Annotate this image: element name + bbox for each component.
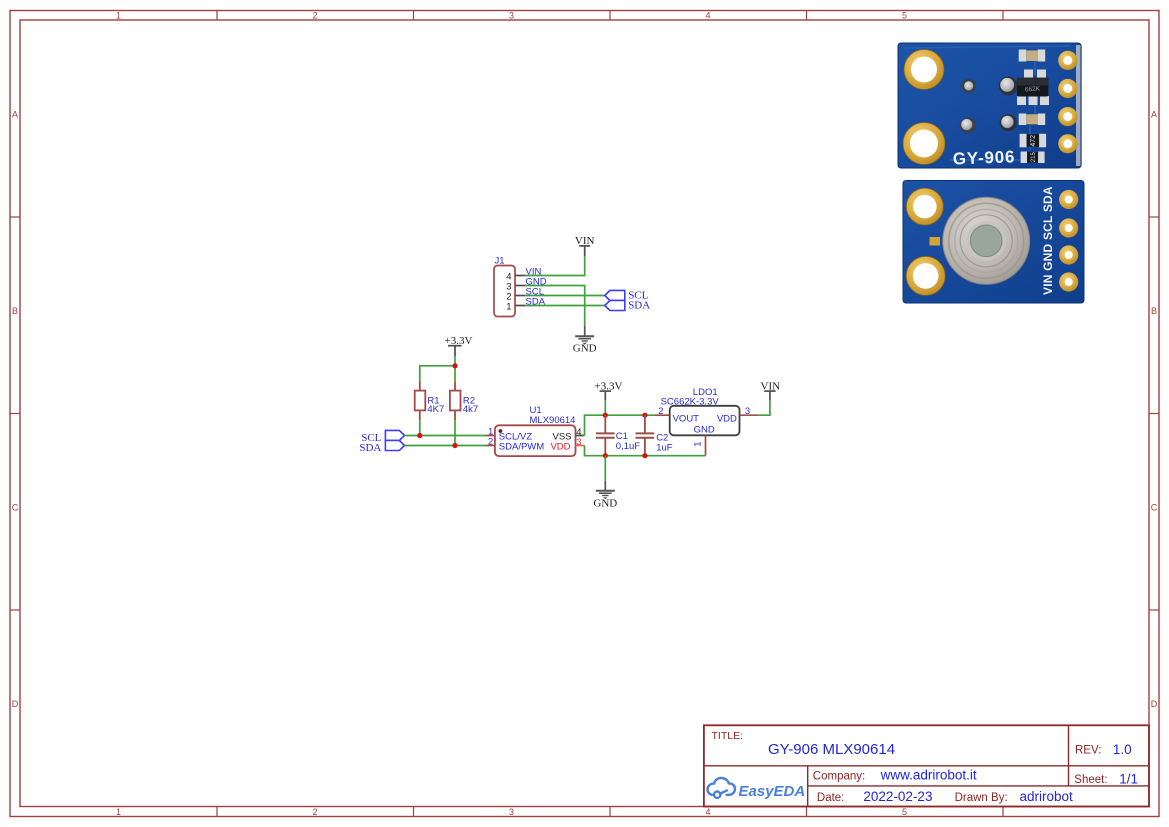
U1 value MLX90614 <box>530 415 576 426</box>
wire LDO1 VDD to VIN flag <box>759 400 770 415</box>
front PCB header pad 3 <box>1059 245 1078 264</box>
wire J1 pin1 to SDA flag <box>525 305 605 307</box>
svg-text:C: C <box>12 503 19 513</box>
capacitor C1 value 0,1uF <box>616 441 640 452</box>
J1 pin label GND <box>526 277 547 288</box>
svg-text:3: 3 <box>509 807 514 817</box>
LDO1 pin name VDD <box>717 413 737 424</box>
svg-text:5: 5 <box>902 10 907 20</box>
back PCB header pad 4 <box>1058 134 1077 153</box>
svg-text:3: 3 <box>576 437 581 448</box>
svg-text:1uF: 1uF <box>656 442 673 453</box>
resistor R1 value 4K7 <box>427 404 444 415</box>
U1 pin 4 stub <box>576 435 585 437</box>
ruler column numbers bottom <box>116 807 907 817</box>
svg-text:2: 2 <box>312 807 317 817</box>
svg-text:3: 3 <box>509 10 514 20</box>
capacitor C1 designator <box>616 431 628 442</box>
back PCB solder joint large upper <box>999 77 1018 96</box>
junction at +3.3V rail <box>452 363 457 368</box>
net flag SDA (right) <box>605 301 625 311</box>
resistor R2 value 4k7 <box>463 404 478 415</box>
back PCB header pad 3 <box>1058 107 1077 126</box>
U1 pin name VDD <box>550 442 570 453</box>
svg-text:GY-906 MLX90614: GY-906 MLX90614 <box>768 741 895 758</box>
back PCB SMD capacitor middle <box>1019 114 1045 126</box>
capacitor C1 <box>596 415 615 456</box>
title block label Drawn By: <box>955 792 1008 804</box>
capacitor C2 <box>636 415 655 456</box>
svg-text:1.0: 1.0 <box>1113 742 1132 757</box>
svg-text:Company:: Company: <box>813 771 865 783</box>
back PCB solder joint small upper <box>962 79 976 93</box>
ruler column tick marks top <box>217 11 1003 21</box>
svg-text:215: 215 <box>1031 152 1037 163</box>
svg-text:4: 4 <box>705 10 710 20</box>
resistor R1 designator <box>427 396 439 407</box>
svg-text:B: B <box>1151 306 1157 316</box>
J1 pin number 2 <box>506 292 511 303</box>
LDO1 value SC662K-3.3V <box>661 396 720 407</box>
J1 pin number 4 <box>506 272 511 283</box>
U1 designator U1 <box>530 405 542 416</box>
back PCB regulator IC SOT23-5 <box>1017 70 1049 106</box>
capacitor C2 designator <box>656 433 668 444</box>
svg-text:1: 1 <box>506 302 511 313</box>
J1 pin label VIN <box>526 267 542 278</box>
photo: GY-906 module front side PCB <box>903 181 1084 304</box>
connector J1 reference designator J1 <box>495 256 505 267</box>
svg-text:1: 1 <box>693 442 704 447</box>
J1 pin 3 stub <box>515 285 525 287</box>
title block divider under company/sheet row <box>808 785 1149 787</box>
svg-text:1: 1 <box>116 807 121 817</box>
date value 2022-02-23 <box>863 789 932 804</box>
ruler row letters right <box>1151 110 1158 710</box>
J1 pin label SCL <box>526 287 544 298</box>
title block label Date: <box>817 792 845 804</box>
net label VIN (right) <box>761 380 781 392</box>
title block vertical divider left of company cell <box>807 766 809 807</box>
back PCB solder joint large lower <box>1000 114 1017 131</box>
company value www.adrirobot.it <box>880 767 977 782</box>
photo: GY-906 module back side PCB <box>898 43 1082 168</box>
svg-text:2022-02-23: 2022-02-23 <box>863 789 932 804</box>
svg-text:GY-906: GY-906 <box>952 147 1015 168</box>
back PCB SMD resistor 215 <box>1021 152 1045 164</box>
title text GY-906 MLX90614 <box>768 741 895 758</box>
U1 pin name SDA/PWM <box>499 442 544 453</box>
junction R2/SDA <box>452 443 457 448</box>
svg-text:VDD: VDD <box>550 442 570 453</box>
svg-text:GND: GND <box>593 497 617 509</box>
U1 pin number 1 <box>488 426 493 437</box>
U1 pin name SCL/VZ <box>499 431 532 442</box>
front PCB mounting hole top-left <box>906 188 943 225</box>
drawn-by value adrirobot <box>1020 789 1074 804</box>
title block label REV: <box>1075 745 1101 757</box>
svg-text:SC662K-3.3V: SC662K-3.3V <box>661 396 720 407</box>
svg-text:SDA/PWM: SDA/PWM <box>499 442 544 453</box>
svg-text:VIN GND SCL SDA: VIN GND SCL SDA <box>1041 186 1055 295</box>
svg-text:J1: J1 <box>495 256 505 267</box>
svg-text:2: 2 <box>312 10 317 20</box>
wire U1 VDD down to bottom rail <box>585 446 606 456</box>
back PCB mounting hole bottom-left <box>903 123 945 165</box>
net label +3.3V (right) <box>595 380 623 392</box>
U1 pin 1 stub <box>485 435 495 437</box>
svg-text:GND: GND <box>694 424 715 435</box>
wire junction to R2 top <box>454 366 456 381</box>
LDO1 pin 3 stub <box>740 414 759 416</box>
net label GND (upper) <box>573 343 597 355</box>
net flag SCL (right) <box>605 290 625 300</box>
svg-text:C: C <box>1151 503 1158 513</box>
MLX90614 sensor can <box>943 197 1030 284</box>
capacitor C2 value 1uF <box>656 442 673 453</box>
resistor R2 <box>450 381 461 420</box>
power flag VIN above J1 <box>579 246 590 256</box>
title block vertical divider left of REV column <box>1068 725 1070 786</box>
wire bottom rail <box>605 455 705 457</box>
svg-text:EasyEDA: EasyEDA <box>739 783 806 800</box>
svg-text:2: 2 <box>488 436 493 447</box>
svg-text:+3.3V: +3.3V <box>595 380 623 392</box>
wire J1 pin4 to VIN flag <box>525 256 585 276</box>
svg-text:TITLE:: TITLE: <box>712 730 744 742</box>
LDO1 pin 1 stub (GND) <box>705 435 707 455</box>
wire J1 pin2 to SCL flag <box>525 295 605 297</box>
net name SDA (right) <box>628 299 650 311</box>
ground symbol below J1 <box>575 325 594 344</box>
sheet value 1/1 <box>1119 771 1138 786</box>
front PCB header pad 1 <box>1059 190 1078 209</box>
EasyEDA logo cloud <box>707 778 734 798</box>
LDO1 designator LDO1 <box>693 387 718 398</box>
svg-text:SDA: SDA <box>628 299 650 311</box>
J1 pin number 3 <box>506 282 511 293</box>
U1 pin name VSS <box>552 431 571 442</box>
svg-text:VDD: VDD <box>717 413 737 424</box>
wire SCL flag to U1 pin1 <box>405 435 486 437</box>
IC U1 MLX90614 body <box>495 425 576 456</box>
back PCB solder joint small lower <box>960 117 976 133</box>
LDO1 pin number 3 <box>745 406 750 417</box>
EasyEDA logo text <box>739 783 806 800</box>
svg-text:www.adrirobot.it: www.adrirobot.it <box>880 767 977 782</box>
svg-text:472: 472 <box>1030 135 1037 147</box>
wire J1 pin3 to GND <box>525 286 585 326</box>
ruler column tick marks bottom <box>217 807 1003 817</box>
wire +3.3V right down to rail <box>604 400 606 415</box>
svg-text:4K7: 4K7 <box>427 404 444 415</box>
net name SCL (left) <box>361 432 381 444</box>
junction C1 bottom <box>603 453 608 458</box>
junction C1 top <box>603 413 608 418</box>
svg-text:D: D <box>12 699 19 709</box>
svg-text:adrirobot: adrirobot <box>1020 789 1074 804</box>
svg-text:1/1: 1/1 <box>1119 771 1138 786</box>
power flag +3.3V left <box>448 346 462 357</box>
LDO1 pin 2 stub <box>654 414 669 416</box>
svg-text:2: 2 <box>658 406 663 417</box>
net label +3.3V (left) <box>445 335 473 347</box>
front PCB silkscreen text VIN GND SCL SDA <box>1041 186 1055 295</box>
back PCB header pad 1 <box>1058 51 1077 70</box>
svg-text:A: A <box>12 110 18 120</box>
svg-text:3: 3 <box>745 406 750 417</box>
U1 pin number 4 <box>576 427 581 438</box>
svg-text:0,1uF: 0,1uF <box>616 441 640 452</box>
back PCB header pad 2 <box>1058 79 1077 98</box>
title block label Sheet: <box>1074 774 1107 786</box>
svg-text:VIN: VIN <box>761 380 781 392</box>
regulator LDO1 body <box>670 406 740 436</box>
svg-text:5: 5 <box>902 807 907 817</box>
front PCB header pad 2 <box>1059 218 1078 237</box>
power flag +3.3V right <box>600 391 611 400</box>
svg-text:+3.3V: +3.3V <box>445 335 473 347</box>
wire R1 bottom to SCL line <box>419 420 421 435</box>
U1 pin number 2 <box>488 436 493 447</box>
resistor R2 designator <box>463 396 475 407</box>
LDO1 pin number 2 <box>658 406 663 417</box>
title block divider under title row <box>704 765 1149 767</box>
back PCB silkscreen text GY-906 <box>952 147 1015 168</box>
title block outline <box>704 725 1149 806</box>
svg-text:662K: 662K <box>1025 85 1041 93</box>
U1 pin 2 stub <box>485 445 495 447</box>
wire R2 bottom to SDA line <box>454 420 456 445</box>
net flag SDA (left) <box>385 441 404 451</box>
J1 pin 4 stub <box>515 275 525 277</box>
ruler row tick marks right <box>1149 217 1159 610</box>
svg-text:1: 1 <box>116 10 121 20</box>
svg-text:MLX90614: MLX90614 <box>530 415 576 426</box>
svg-text:Drawn By:: Drawn By: <box>955 792 1008 804</box>
svg-text:A: A <box>1151 110 1157 120</box>
title block label Company: <box>813 771 865 783</box>
junction R1/SCL <box>417 433 422 438</box>
power flag VIN right <box>764 391 775 400</box>
svg-text:D: D <box>1151 699 1158 709</box>
LDO1 pin name VOUT <box>673 413 700 424</box>
connector J1 body <box>494 266 515 317</box>
svg-text:Sheet:: Sheet: <box>1074 774 1107 786</box>
U1 pin number 3 <box>576 437 581 448</box>
resistor R1 <box>415 381 426 420</box>
net flag SCL (left) <box>385 430 404 440</box>
J1 pin 1 stub <box>515 305 525 307</box>
LDO1 pin name GND <box>694 424 715 435</box>
wire +3.3V down to junction <box>454 356 456 366</box>
junction C2 bottom <box>642 453 647 458</box>
svg-text:GND: GND <box>573 343 597 355</box>
ruler row tick marks left <box>10 217 20 610</box>
ruler column numbers top <box>116 10 907 20</box>
ground symbol below C1 <box>596 481 615 499</box>
ruler row letters left <box>12 110 19 710</box>
back PCB SMD resistor 472 <box>1020 134 1047 148</box>
U1 pin 3 stub <box>576 445 585 447</box>
svg-text:4: 4 <box>705 807 710 817</box>
wire SDA flag to U1 pin2 <box>405 445 486 447</box>
front PCB gold tab <box>930 237 941 246</box>
J1 pin 2 stub <box>515 295 525 297</box>
J1 pin label SDA <box>526 297 546 308</box>
svg-text:REV:: REV: <box>1075 745 1101 757</box>
svg-text:VIN: VIN <box>575 235 595 247</box>
back PCB SMD capacitor top <box>1019 50 1045 62</box>
LDO1 pin number 1 (rotated) <box>693 442 704 447</box>
svg-text:4k7: 4k7 <box>463 404 478 415</box>
net label GND (lower) <box>593 497 617 509</box>
wire junction to R1 top <box>420 366 455 381</box>
front PCB mounting hole bottom-left <box>906 256 945 295</box>
J1 pin number 1 <box>506 302 511 313</box>
junction C2 top <box>642 413 647 418</box>
svg-text:Date:: Date: <box>817 792 845 804</box>
title block label TITLE: <box>712 730 744 742</box>
svg-text:SDA: SDA <box>359 442 381 454</box>
svg-text:B: B <box>12 306 18 316</box>
net name SCL (right) <box>628 289 648 301</box>
back PCB mounting hole top-left <box>904 50 944 90</box>
net label VIN (top) <box>575 235 595 247</box>
wire C1 bottom down to GND <box>604 456 606 481</box>
net name SDA (left) <box>359 442 381 454</box>
svg-text:VOUT: VOUT <box>673 413 700 424</box>
U1 pin1 indicator dot <box>499 429 503 433</box>
front PCB header pad 4 <box>1059 272 1078 291</box>
wire U1 VSS up to +3.3V rail <box>585 415 655 435</box>
revision value 1.0 <box>1113 742 1132 757</box>
